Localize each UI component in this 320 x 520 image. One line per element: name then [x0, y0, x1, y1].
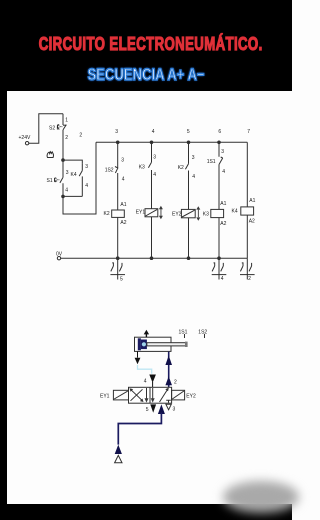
valve right square arrows	[151, 388, 171, 403]
node 0V terminal	[57, 257, 60, 260]
svg-text:1: 1	[65, 117, 68, 123]
supply source arrow	[115, 445, 122, 454]
svg-text:A1: A1	[220, 201, 226, 207]
compressed air source symbol	[115, 455, 122, 462]
contact mirror K3	[212, 258, 227, 279]
svg-text:1S1: 1S1	[179, 330, 188, 336]
svg-text:K4: K4	[232, 209, 238, 215]
contact S1	[55, 160, 63, 196]
svg-text:2: 2	[65, 135, 68, 141]
svg-text:A2: A2	[249, 219, 255, 225]
svg-text:4: 4	[192, 174, 195, 180]
5/2 valve body	[129, 387, 172, 403]
svg-text:A2: A2	[220, 221, 226, 227]
svg-text:2: 2	[79, 133, 82, 139]
svg-text:5: 5	[146, 407, 149, 413]
svg-text:A1: A1	[249, 198, 255, 204]
svg-text:4: 4	[65, 188, 68, 194]
svg-text:4: 4	[152, 129, 155, 135]
navy pipe port2 to cylinder right port	[168, 352, 170, 387]
solenoid EY2	[181, 209, 195, 258]
svg-text:4: 4	[122, 176, 125, 182]
wire rung1 output riser to top bus	[63, 142, 96, 214]
svg-text:EY1: EY1	[100, 394, 110, 400]
contact K3	[148, 142, 151, 208]
svg-text:K3: K3	[139, 165, 145, 171]
top black banner	[0, 0, 292, 91]
svg-text:4: 4	[153, 172, 156, 178]
svg-text:S2 E: S2 E	[49, 126, 61, 132]
node 0V col4	[150, 256, 154, 260]
svg-text:A1: A1	[120, 202, 126, 208]
valve left square arrows	[130, 388, 149, 403]
bottom black band	[0, 504, 292, 520]
flow arrow cylinder left port down	[135, 351, 141, 364]
node bus col4	[150, 141, 154, 145]
svg-text:K2: K2	[104, 211, 110, 217]
hand symbol (manual override)	[47, 152, 53, 158]
wire top bus	[96, 141, 247, 143]
relay coil K4	[241, 207, 254, 258]
svg-text:2: 2	[248, 276, 251, 282]
node junction top of parallel branch	[61, 158, 65, 162]
gray blob bottom right	[223, 481, 299, 513]
svg-text:A2: A2	[120, 220, 126, 226]
contact 1S2	[115, 142, 118, 210]
contact mirror K2	[110, 258, 125, 279]
exhaust arrow port 5	[150, 404, 156, 412]
node bus col6	[217, 141, 221, 145]
svg-text:EY2: EY2	[172, 212, 182, 218]
pushbutton S2	[58, 114, 67, 160]
contact K2	[185, 142, 188, 209]
svg-text:K2: K2	[178, 165, 184, 171]
svg-text:K4: K4	[71, 172, 77, 178]
node 0V col3	[116, 256, 120, 260]
flow arrowheads on port2 pipe	[165, 355, 172, 385]
svg-text:1S1: 1S1	[207, 159, 216, 165]
navy supply pipe	[118, 413, 161, 445]
exhaust silencer port 3	[166, 404, 171, 410]
valve link marker EY2	[196, 206, 200, 221]
supply arrow into port 1	[158, 404, 165, 414]
svg-text:4: 4	[221, 276, 224, 282]
flow arrow into valve port 4	[149, 375, 156, 388]
relay coil K3	[211, 209, 224, 258]
svg-text:1S2: 1S2	[198, 330, 207, 336]
pneumatic cylinder 1A	[135, 337, 188, 351]
node 0V col5	[187, 256, 191, 260]
subtitle text	[34, 65, 259, 85]
svg-text:3: 3	[85, 164, 88, 170]
svg-text:3: 3	[66, 170, 69, 176]
svg-text:EY1: EY1	[136, 209, 146, 215]
svg-text:7: 7	[247, 129, 250, 135]
schematic text labels	[19, 117, 256, 413]
wire parallel branch bottom	[63, 195, 82, 197]
svg-text:2: 2	[174, 379, 177, 385]
solenoid box EY1	[113, 390, 128, 400]
node +24V terminal	[25, 142, 28, 145]
node 0V col6	[217, 256, 221, 260]
wire +24V feed to S2	[29, 114, 63, 143]
svg-text:1S2: 1S2	[105, 168, 114, 174]
left black strip	[0, 0, 7, 520]
svg-text:6: 6	[218, 129, 221, 135]
contact 1S1	[219, 142, 223, 209]
svg-text:K3: K3	[203, 212, 209, 218]
svg-text:0V: 0V	[56, 251, 63, 257]
svg-text:3: 3	[221, 149, 224, 155]
svg-text:5: 5	[187, 129, 190, 135]
valve link marker EY1	[159, 206, 163, 219]
svg-text:4: 4	[85, 183, 88, 189]
svg-text:4: 4	[144, 378, 147, 384]
motion arrow above cylinder	[144, 330, 149, 337]
label 1S1 tick	[184, 334, 186, 338]
svg-text:3: 3	[192, 155, 195, 161]
svg-text:+24V: +24V	[19, 135, 31, 141]
node junction bottom of parallel branch	[61, 195, 65, 199]
svg-text:4: 4	[222, 169, 225, 175]
node bus col3	[116, 141, 120, 145]
wire bottom 0V bus	[61, 257, 248, 259]
wire col7 from bus	[246, 142, 248, 207]
svg-text:3: 3	[115, 129, 118, 135]
svg-text:5: 5	[120, 277, 123, 283]
svg-text:3: 3	[173, 407, 176, 413]
svg-text:S1 E: S1 E	[47, 178, 59, 184]
svg-text:3: 3	[153, 154, 156, 160]
relay coil K2	[112, 210, 125, 258]
label 1S2 tick	[204, 334, 206, 338]
node bus col5	[187, 141, 191, 145]
svg-text:EY2: EY2	[186, 394, 196, 400]
contact mirror K4	[240, 258, 255, 279]
solenoid EY1	[145, 209, 158, 259]
title text	[39, 34, 254, 55]
cyan exhaust pipe	[138, 365, 152, 374]
contact K4 (parallel)	[79, 164, 82, 197]
svg-text:3: 3	[121, 158, 124, 164]
solenoid box EY2	[172, 390, 185, 400]
wire parallel branch top	[63, 160, 82, 164]
